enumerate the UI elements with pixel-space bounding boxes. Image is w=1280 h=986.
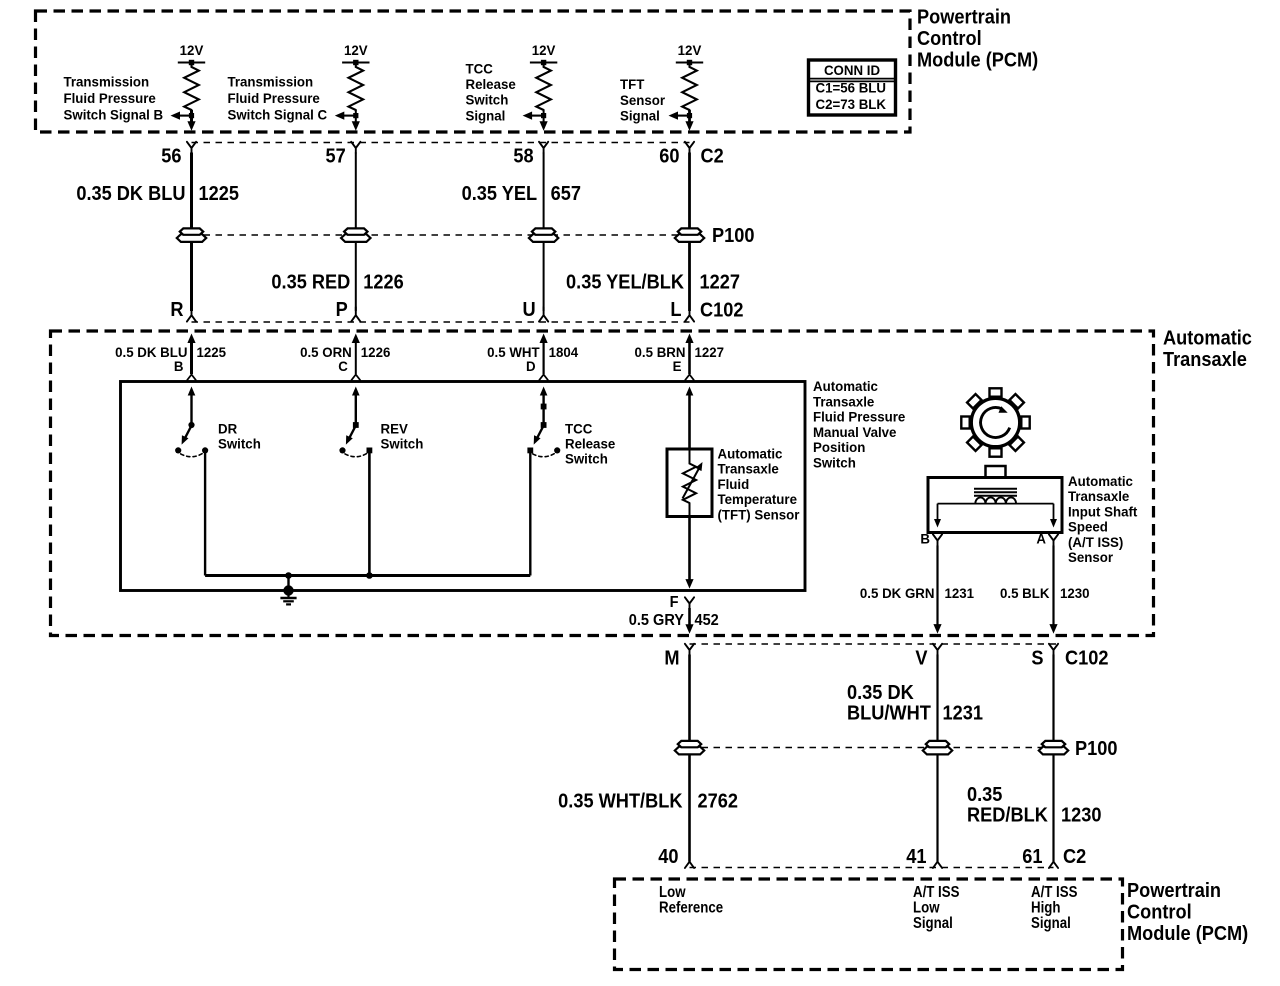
svg-text:P: P (336, 299, 348, 321)
svg-text:TCC: TCC (466, 61, 493, 76)
terminal R (C102) connector (170, 299, 196, 321)
svg-text:Fluid Pressure: Fluid Pressure (227, 90, 320, 105)
node 12V supply (TCC release switch signal circuit) (530, 43, 557, 66)
svg-text:P100: P100 (1075, 738, 1117, 760)
svg-text:0.5 GRY: 0.5 GRY (629, 611, 684, 629)
svg-text:Transaxle: Transaxle (717, 461, 779, 476)
switch: DR Switch (175, 387, 208, 576)
switch: TCC Release Switch (527, 387, 560, 576)
svg-text:41: 41 (906, 846, 927, 868)
svg-text:0.35: 0.35 (967, 784, 1003, 806)
svg-text:U: U (522, 299, 535, 321)
terminal B of ISS sensor (920, 531, 942, 546)
svg-text:Powertrain: Powertrain (917, 7, 1011, 29)
label: REV Switch (381, 421, 424, 451)
svg-text:Sensor: Sensor (1068, 550, 1114, 565)
TFT sensor (thermistor) box (667, 449, 712, 517)
svg-text:0.35 DK BLU: 0.35 DK BLU (76, 183, 185, 205)
P100 pass-through connector row: thin dashed line (192, 234, 704, 236)
svg-text:657: 657 (551, 183, 581, 205)
svg-text:1225: 1225 (196, 345, 226, 360)
label: wire 0.5 DK GRN 1231 (860, 586, 975, 601)
pull-up resistor, TFP switch signal C circuit (349, 63, 364, 111)
svg-text:1227: 1227 (694, 345, 724, 360)
terminal A of ISS sensor (1036, 531, 1058, 546)
label: Automatic Transaxle (1163, 328, 1252, 371)
wire 1225 (0.35 DK BLU) segment, pin 56 to P100 (190, 153, 193, 229)
svg-text:1227: 1227 (699, 272, 739, 294)
label: DR Switch (218, 421, 261, 451)
terminal V (C102 bottom) connector (915, 644, 942, 670)
svg-text:Switch: Switch (218, 436, 261, 451)
svg-text:BLU/WHT: BLU/WHT (847, 703, 931, 725)
terminal S (C102 bottom) connector (1031, 644, 1058, 670)
svg-text:1231: 1231 (944, 586, 974, 601)
svg-text:C102: C102 (1065, 648, 1108, 670)
svg-text:RED/BLK: RED/BLK (967, 805, 1048, 827)
svg-text:Manual Valve: Manual Valve (813, 425, 897, 440)
svg-text:61: 61 (1022, 846, 1043, 868)
svg-text:C2: C2 (700, 146, 723, 168)
wire: terminal E to TFT sensor (686, 387, 694, 450)
svg-text:12V: 12V (344, 43, 368, 58)
svg-text:M: M (664, 648, 679, 670)
svg-text:L: L (670, 299, 681, 321)
A/T ISS sensor box (inductive pickup) (928, 466, 1062, 533)
label: signal name 'Transmission Fluid Pressure Switch Signal C' (227, 74, 327, 122)
svg-text:TCC: TCC (565, 421, 592, 436)
svg-text:1226: 1226 (361, 345, 391, 360)
wire: TFT sensor to terminal F (685, 517, 693, 589)
terminal 41 (bottom PCM) connector (906, 846, 942, 868)
label: wire 0.5 BLK 1230 (1000, 586, 1090, 601)
svg-text:56: 56 (161, 146, 181, 168)
P100 grommet on wire from pin 60 (675, 228, 704, 242)
wire 1231 (0.5 DK GRN), ISS B to transaxle connector (933, 546, 941, 634)
label: wire 0.5 DK BLU 1225, terminal B (115, 345, 226, 374)
svg-text:0.35 DK: 0.35 DK (847, 682, 914, 704)
svg-text:Switch: Switch (813, 455, 856, 470)
svg-text:1226: 1226 (363, 272, 403, 294)
label: Low Reference (pin 40) (659, 884, 723, 917)
terminal P (C102) connector (336, 299, 361, 321)
terminal 61 (bottom PCM) connector (1022, 846, 1058, 868)
gear icon (input shaft) above A/T ISS sensor (961, 388, 1029, 456)
svg-text:C1=56 BLU: C1=56 BLU (815, 80, 886, 95)
wire 1225 (0.5 DK BLU) into transaxle, terminal B (187, 334, 196, 381)
svg-text:Release: Release (466, 77, 517, 92)
wire 1226 (0.5 ORN) into transaxle, terminal C (352, 334, 361, 381)
label: TCC Release Switch (565, 421, 616, 466)
wire 1230 segment, P100 to pin 61 (1052, 754, 1054, 862)
svg-text:Signal: Signal (620, 108, 660, 123)
svg-text:Automatic: Automatic (1163, 328, 1252, 350)
svg-text:Automatic: Automatic (1068, 474, 1133, 489)
wire 657 (0.35 YEL) segment, pin 58 to P100 (543, 153, 545, 229)
svg-text:P100: P100 (712, 225, 754, 247)
switch: REV Switch (339, 387, 372, 576)
svg-text:Release: Release (565, 436, 616, 451)
svg-text:V: V (915, 648, 927, 670)
svg-text:Module (PCM): Module (PCM) (917, 50, 1038, 72)
svg-text:12V: 12V (180, 43, 204, 58)
wire 2762 segment, terminal M to P100 (688, 655, 691, 742)
svg-text:Switch Signal B: Switch Signal B (63, 107, 163, 122)
PCM module box (top) - Powertrain Control Module dashed enclosure (36, 11, 911, 132)
svg-text:Fluid: Fluid (717, 477, 749, 492)
svg-text:Automatic: Automatic (717, 446, 782, 461)
wire 1226 (0.35 RED) segment, P100 to C102 terminal P (355, 242, 357, 312)
svg-text:Signal: Signal (1031, 915, 1071, 932)
label: A/T ISS Low Signal (pin 41) (913, 884, 960, 933)
svg-text:Powertrain: Powertrain (1127, 880, 1221, 902)
svg-text:Switch: Switch (565, 451, 608, 466)
P100 pass-through row (bottom): thin dashed line (690, 747, 1063, 749)
svg-text:Position: Position (813, 440, 865, 455)
svg-text:12V: 12V (678, 43, 702, 58)
connector row C2: thin dashed line (192, 142, 690, 144)
wire: resistor to PCM connector pin, with signal tap (335, 110, 360, 131)
svg-text:2762: 2762 (697, 791, 737, 813)
label: wire 0.35 DK BLU/WHT 1231 (847, 682, 983, 724)
svg-text:1225: 1225 (198, 183, 239, 205)
svg-text:Transaxle: Transaxle (1068, 489, 1130, 504)
svg-text:Signal: Signal (466, 108, 506, 123)
P100 grommet on wire to pin 61 (1039, 741, 1068, 755)
A/T ISS sensor pickup coil and core (934, 489, 1057, 528)
svg-text:60: 60 (659, 146, 679, 168)
svg-text:F: F (670, 593, 679, 611)
svg-text:Fluid Pressure: Fluid Pressure (63, 90, 156, 105)
pull-up resistor, TCC release switch signal circuit (536, 63, 551, 111)
wire segment pin 60 to P100 (688, 153, 691, 229)
svg-text:0.35 WHT/BLK: 0.35 WHT/BLK (558, 791, 682, 813)
svg-text:0.35 YEL/BLK: 0.35 YEL/BLK (566, 272, 684, 294)
P100 grommet on wire from pin 57 (341, 228, 370, 242)
terminal 58 (C2) female connector (513, 142, 548, 168)
svg-text:REV: REV (381, 421, 408, 436)
svg-text:Transaxle: Transaxle (813, 394, 875, 409)
label: wire 0.35 YEL/BLK 1227 (566, 272, 740, 294)
svg-text:1804: 1804 (549, 345, 579, 360)
svg-text:0.35 RED: 0.35 RED (271, 272, 350, 294)
svg-text:B: B (920, 531, 930, 546)
terminal M (C102 bottom) connector (664, 644, 694, 670)
wire 2762 segment, P100 to pin 40 (688, 754, 691, 862)
wire: resistor to PCM connector pin, with signal tap (669, 110, 694, 131)
label: wire 0.5 GRY 452 (629, 611, 719, 629)
connector row C102: thin dashed line (192, 321, 690, 323)
svg-text:1231: 1231 (942, 703, 983, 725)
svg-text:Control: Control (917, 28, 982, 50)
node 12V supply (TFP switch signal C circuit) (342, 43, 369, 66)
CONN ID table (C1=56 BLU, C2=73 BLK) (809, 60, 896, 115)
svg-text:Input Shaft: Input Shaft (1068, 504, 1138, 519)
P100 grommet on wire to pin 40 (675, 741, 704, 755)
svg-text:Transaxle: Transaxle (1163, 349, 1247, 371)
terminal U (C102) connector (522, 299, 548, 321)
svg-text:40: 40 (658, 846, 678, 868)
svg-text:Switch: Switch (381, 436, 424, 451)
svg-text:D: D (526, 359, 536, 374)
wire 1231 segment, P100 to pin 41 (936, 754, 938, 862)
PCM module box (bottom) dashed enclosure (615, 879, 1123, 970)
svg-text:57: 57 (326, 146, 346, 168)
terminal 40 (bottom PCM) connector (658, 846, 694, 868)
svg-text:Control: Control (1127, 902, 1192, 924)
svg-text:Transmission: Transmission (227, 74, 313, 89)
svg-text:Transmission: Transmission (63, 74, 149, 89)
label: wire 0.35 DK BLU 1225 (76, 183, 239, 205)
terminal L (C102) connector (670, 299, 694, 321)
label: wire 0.5 BRN 1227, terminal E (635, 345, 725, 374)
svg-text:1230: 1230 (1061, 805, 1101, 827)
svg-text:C: C (338, 359, 348, 374)
wire 1804 (0.5 WHT) into transaxle, terminal D (539, 334, 548, 381)
label: Automatic Transaxle Fluid Pressure Manual Valve Position Switch (813, 379, 906, 471)
label: signal name 'TFT Sensor Signal' (620, 77, 666, 124)
wire 1227 (0.5 BRN) into transaxle, terminal E (685, 334, 694, 381)
ground symbol (case ground at MVPS switch) (280, 585, 296, 604)
wire 1231 segment, terminal V to P100 (936, 655, 938, 742)
svg-text:C102: C102 (700, 300, 743, 322)
svg-text:(A/T ISS): (A/T ISS) (1068, 534, 1123, 549)
pull-up resistor, TFT sensor signal circuit (682, 63, 697, 111)
svg-text:0.5 DK GRN: 0.5 DK GRN (860, 586, 935, 601)
label: wire 0.5 ORN 1226, terminal C (300, 345, 391, 374)
pull-up resistor, TFP switch signal B circuit (184, 63, 199, 111)
wire 1225 segment, P100 to C102 terminal R (190, 242, 193, 312)
svg-text:Automatic: Automatic (813, 379, 878, 394)
svg-text:58: 58 (513, 146, 534, 168)
wire 1230 (0.5 BLK), ISS A to transaxle connector (1049, 546, 1057, 634)
wire segment pin 57 to P100 (355, 153, 357, 229)
label: Automatic Transaxle Input Shaft Speed (A/T ISS) Sensor (1068, 474, 1138, 565)
label: signal name 'Transmission Fluid Pressure Switch Signal B' (63, 74, 163, 122)
svg-text:Temperature: Temperature (717, 492, 797, 507)
label: Automatic Transaxle Fluid Temperature (TFT) Sensor (717, 446, 800, 522)
wire segment, P100 to C102 terminal U (543, 242, 545, 312)
node 12V supply (TFP switch signal B circuit) (178, 43, 205, 66)
label: signal name 'TCC Release Switch Signal' (466, 61, 517, 123)
Automatic Transaxle dashed enclosure (51, 331, 1154, 636)
svg-text:Sensor: Sensor (620, 92, 666, 107)
svg-text:S: S (1031, 648, 1043, 670)
wire: resistor to PCM connector pin, with signal tap (171, 110, 196, 131)
svg-text:Fluid Pressure: Fluid Pressure (813, 409, 906, 424)
label: Powertrain Control Module (PCM) top-right (917, 7, 1038, 72)
svg-text:A: A (1036, 531, 1046, 546)
svg-text:DR: DR (218, 421, 237, 436)
svg-text:Signal: Signal (913, 915, 953, 932)
P100 grommet on wire to pin 41 (923, 741, 952, 755)
label: A/T ISS High Signal (pin 61) (1031, 884, 1078, 933)
svg-text:1230: 1230 (1060, 586, 1090, 601)
wire 1230 segment, terminal S to P100 (1052, 655, 1054, 742)
MVPS switch assembly box (solid) (121, 382, 806, 591)
connector row C102 (bottom): thin dashed line (690, 643, 1059, 645)
terminal 56 (C2) female connector (161, 142, 196, 168)
svg-text:Speed: Speed (1068, 519, 1108, 534)
svg-text:0.5 BLK: 0.5 BLK (1000, 586, 1050, 601)
P100 grommet on wire from pin 58 (529, 228, 558, 242)
TCC release switch upper contact dot (541, 404, 547, 410)
P100 grommet on wire from pin 56 (177, 228, 206, 242)
svg-text:Module (PCM): Module (PCM) (1127, 923, 1248, 945)
terminal 60 (C2) female connector (659, 142, 694, 168)
svg-text:TFT: TFT (620, 77, 645, 92)
terminal 57 (C2) female connector (326, 142, 361, 168)
svg-text:R: R (170, 299, 183, 321)
svg-text:Switch Signal C: Switch Signal C (227, 107, 327, 122)
svg-text:E: E (673, 359, 682, 374)
wire 452 (0.5 GRY), terminal F to transaxle case connector (685, 608, 693, 634)
svg-text:Switch: Switch (466, 92, 509, 107)
svg-text:C2=73 BLK: C2=73 BLK (815, 97, 886, 112)
label: wire 0.35 WHT/BLK 2762 (558, 791, 738, 813)
label: wire 0.35 YEL 657 (462, 183, 581, 205)
label: wire 0.35 RED/BLK 1230 (967, 784, 1101, 826)
svg-text:B: B (174, 359, 184, 374)
svg-text:12V: 12V (532, 43, 556, 58)
connector row C2 (bottom): thin dashed line (690, 867, 1054, 869)
label: Powertrain Control Module (PCM) bottom-right (1127, 880, 1248, 945)
node 12V supply (TFT sensor signal circuit) (676, 43, 703, 66)
svg-text:(TFT) Sensor: (TFT) Sensor (717, 507, 800, 522)
label: wire 0.35 RED 1226 (271, 272, 403, 294)
wire: switch common bus to ground (205, 572, 530, 589)
svg-text:C2: C2 (1063, 846, 1086, 868)
wire 1227 (0.35 YEL/BLK) segment, P100 to C102 terminal L (688, 242, 691, 312)
wire: resistor to PCM connector pin, with signal tap (523, 110, 548, 131)
terminal F of MVPS switch (670, 593, 694, 611)
label: wire 0.5 WHT 1804, terminal D (487, 345, 578, 374)
svg-text:CONN ID: CONN ID (824, 62, 880, 77)
svg-text:0.35 YEL: 0.35 YEL (462, 183, 538, 205)
svg-text:452: 452 (695, 611, 719, 629)
svg-text:Reference: Reference (659, 900, 723, 917)
